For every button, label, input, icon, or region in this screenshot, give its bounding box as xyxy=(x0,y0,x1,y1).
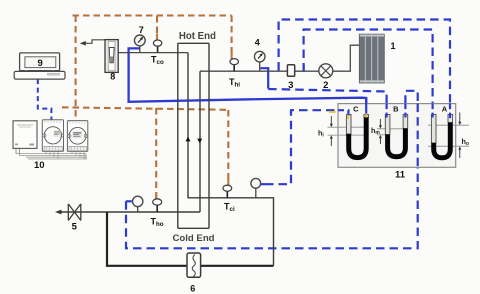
svg-text:2: 2 xyxy=(323,80,328,91)
svg-text:Hot End: Hot End xyxy=(179,31,216,42)
flow arrow up xyxy=(186,137,191,142)
DAQ wiring bundle xyxy=(16,151,87,159)
sensor Thi xyxy=(233,64,235,71)
DAQ module (middle) xyxy=(42,120,63,152)
pipe cold-in line Tci xyxy=(188,198,274,266)
yellow junction ticks xyxy=(329,112,366,119)
svg-text:7: 7 xyxy=(139,25,144,35)
wire brown thermocouple top bus xyxy=(62,16,232,200)
gauge 7 xyxy=(139,46,141,52)
manometer bank 11 box xyxy=(338,104,456,168)
sensor Tco xyxy=(157,46,159,52)
pressure tap circle near Tho xyxy=(137,207,139,212)
manometer tube C xyxy=(346,105,368,158)
wire blue overlay inside manometer box xyxy=(338,98,450,167)
flow arrow down xyxy=(197,139,202,144)
orifice 3 xyxy=(287,65,294,77)
pump 2 xyxy=(319,64,333,78)
pipe rotameter outlet with arrow xyxy=(84,40,105,44)
svg-text:A: A xyxy=(442,105,448,114)
svg-text:1: 1 xyxy=(390,41,395,51)
level lines and h dimensions C xyxy=(330,116,332,146)
svg-text:4: 4 xyxy=(255,38,260,48)
pipe hot-in line Thi xyxy=(200,70,323,72)
pipe bottom supply loop xyxy=(107,212,274,266)
manometer tube A xyxy=(431,105,452,158)
wire blue solid gauge7 to manometer C right leg xyxy=(129,48,367,116)
wire blue gauge4 bracket xyxy=(126,65,304,202)
wire brown solid stubs at sensors xyxy=(156,34,231,200)
svg-text:3: 3 xyxy=(288,80,293,91)
sensor Tho xyxy=(156,205,158,212)
radiator 1 xyxy=(359,34,384,83)
DAQ module (right) xyxy=(67,121,87,152)
manometer tube B xyxy=(385,105,407,157)
svg-text:Cold End: Cold End xyxy=(172,233,214,244)
valve 5 xyxy=(68,204,81,221)
svg-text:B: B xyxy=(393,105,399,114)
svg-text:11: 11 xyxy=(395,170,406,181)
level lines and h dimensions A xyxy=(459,113,461,159)
heat exchanger concentric tubes xyxy=(178,43,209,228)
svg-text:C: C xyxy=(353,105,359,114)
wire blue dashed outer loop: pipe tap to tube A right xyxy=(126,20,450,249)
manometer level lines xyxy=(328,125,470,146)
wire laptop to DAQ module xyxy=(38,79,52,120)
laptop 9 xyxy=(20,53,60,71)
DAQ bank 10: power supply unit xyxy=(13,121,37,149)
pressure tap circle near Tci xyxy=(255,188,257,198)
rotameter 8 xyxy=(105,40,118,73)
gauge 4 xyxy=(259,62,261,71)
pipe hot-out line Tho with drain arrow xyxy=(60,211,200,213)
hose 6 xyxy=(187,253,201,277)
sensor Tci xyxy=(226,191,228,198)
svg-text:8: 8 xyxy=(110,72,115,82)
svg-text:5: 5 xyxy=(72,222,78,233)
pipe cold-out line Tco xyxy=(118,52,188,54)
svg-text:9: 9 xyxy=(38,58,43,69)
level lines and h dimensions B xyxy=(379,119,381,144)
svg-text:6: 6 xyxy=(190,284,195,294)
svg-text:10: 10 xyxy=(34,160,45,171)
